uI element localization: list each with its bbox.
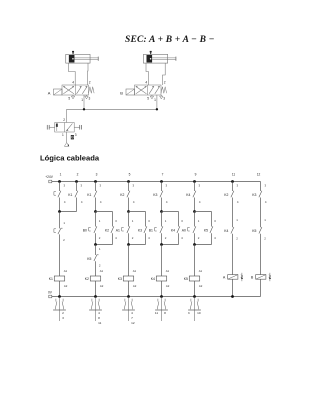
- svg-text:12: 12: [131, 321, 135, 325]
- svg-text:5: 5: [129, 173, 131, 177]
- svg-text:A1: A1: [133, 269, 137, 273]
- svg-text:SEC: A + B + A − B −: SEC: A + B + A − B −: [125, 35, 215, 45]
- svg-text:A0: A0: [182, 229, 186, 233]
- svg-text:2: 2: [164, 81, 166, 85]
- svg-text:K2: K2: [120, 193, 124, 197]
- svg-text:1: 1: [60, 173, 62, 177]
- svg-text:Lógica cableada: Lógica cableada: [40, 154, 100, 163]
- svg-text:K2: K2: [105, 229, 109, 233]
- svg-text:9: 9: [195, 173, 197, 177]
- svg-text:A2: A2: [64, 284, 68, 288]
- svg-text:K2: K2: [85, 277, 89, 281]
- svg-text:3: 3: [62, 316, 64, 320]
- svg-text:K3: K3: [252, 193, 256, 197]
- svg-text:10: 10: [197, 311, 201, 315]
- svg-text:2: 2: [77, 173, 79, 177]
- svg-text:A2: A2: [133, 284, 137, 288]
- svg-text:+24V: +24V: [45, 175, 53, 179]
- svg-text:K5: K5: [204, 229, 208, 233]
- svg-text:3: 3: [96, 173, 98, 177]
- svg-text:A1: A1: [64, 269, 68, 273]
- svg-text:A2: A2: [166, 284, 170, 288]
- svg-text:11: 11: [98, 321, 101, 325]
- svg-text:3: 3: [163, 96, 165, 100]
- svg-text:K4: K4: [224, 229, 228, 233]
- svg-text:K4: K4: [151, 277, 155, 281]
- svg-text:B1: B1: [149, 229, 153, 233]
- svg-text:K3: K3: [138, 229, 142, 233]
- svg-text:B: B: [120, 90, 123, 95]
- svg-text:5: 5: [68, 96, 70, 100]
- svg-text:K3: K3: [118, 277, 122, 281]
- svg-text:A1: A1: [199, 269, 203, 273]
- svg-text:12: 12: [257, 173, 261, 177]
- svg-text:K1: K1: [49, 277, 53, 281]
- svg-text:K3: K3: [153, 193, 157, 197]
- svg-text:K2: K2: [224, 193, 228, 197]
- svg-text:2: 2: [62, 311, 64, 315]
- svg-text:A1: A1: [100, 269, 104, 273]
- svg-text:8: 8: [164, 311, 166, 315]
- svg-text:K5: K5: [184, 277, 188, 281]
- svg-text:7: 7: [162, 173, 164, 177]
- svg-text:K1: K1: [68, 193, 72, 197]
- svg-text:K1: K1: [87, 193, 91, 197]
- svg-text:11: 11: [155, 311, 158, 315]
- svg-text:A2: A2: [100, 284, 104, 288]
- svg-text:A1: A1: [116, 229, 120, 233]
- svg-text:B0: B0: [83, 229, 87, 233]
- svg-text:1: 1: [81, 98, 83, 102]
- svg-text:3: 3: [188, 311, 190, 315]
- svg-text:K4: K4: [186, 193, 190, 197]
- svg-text:5: 5: [147, 96, 149, 100]
- svg-text:4: 4: [145, 81, 147, 85]
- svg-text:4: 4: [72, 81, 74, 85]
- svg-text:4: 4: [131, 311, 133, 315]
- svg-text:1: 1: [154, 98, 156, 102]
- svg-text:3: 3: [75, 133, 77, 137]
- svg-text:7: 7: [131, 316, 133, 320]
- svg-text:K4: K4: [171, 229, 175, 233]
- svg-text:11: 11: [232, 173, 236, 177]
- svg-text:K5: K5: [87, 257, 91, 261]
- svg-text:A1: A1: [166, 269, 170, 273]
- svg-text:3: 3: [89, 96, 91, 100]
- svg-text:4: 4: [98, 311, 100, 315]
- svg-text:K5: K5: [252, 229, 256, 233]
- svg-text:A: A: [48, 90, 51, 95]
- svg-text:1: 1: [62, 133, 64, 137]
- svg-text:2: 2: [63, 118, 65, 122]
- svg-text:2: 2: [89, 81, 91, 85]
- svg-text:A2: A2: [199, 284, 203, 288]
- svg-text:8: 8: [98, 316, 100, 320]
